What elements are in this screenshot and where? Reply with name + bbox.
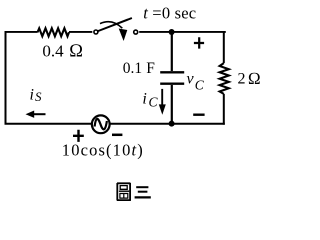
capacitor C1 bottom plate [160,82,184,84]
wire switch to top-right corner [139,31,226,33]
svg-text:C: C [195,77,205,92]
wire bottom-left [5,123,92,125]
svg-text:F: F [146,60,155,77]
svg-text:10cos(10t): 10cos(10t) [62,141,144,160]
current arrow iC down [161,89,163,106]
wire right vertical bottom segment [223,94,225,125]
minus sign source polarity [112,134,122,137]
node junction dot bottom [169,121,175,127]
node junction dot top [169,29,175,35]
wire resistor to switch [69,31,92,33]
plus sign source polarity [73,130,84,142]
switch blade [98,18,132,31]
svg-text:Ω: Ω [248,69,261,88]
svg-text:i: i [142,90,146,107]
wire capacitor bottom lead [171,85,173,124]
AC source VS circle [92,115,110,133]
wire capacitor top lead [171,32,173,71]
switch SW1 left contact [94,30,98,34]
caption character tu (figure) [117,183,131,200]
svg-text:C: C [149,94,159,109]
svg-text:Ω: Ω [69,42,83,62]
svg-text:v: v [187,70,195,87]
caption character san (three) [135,187,151,197]
switch SW1 right contact [134,30,138,34]
svg-text:i: i [30,86,34,103]
svg-text:0.1: 0.1 [123,60,142,77]
resistor R1 0.4 ohm zigzag [38,28,70,36]
wire bottom-right [110,123,225,125]
svg-text:0.4: 0.4 [42,41,64,60]
svg-text:t =0 sec: t =0 sec [143,4,196,23]
capacitor C1 top plate [160,71,184,73]
wire right vertical top segment [223,31,225,63]
switch motion arc [100,22,122,29]
svg-text:S: S [35,89,42,104]
wire top-left to resistor [5,31,38,33]
plus sign vC polarity [194,37,204,48]
minus sign vC polarity [193,113,204,115]
wire left vertical [5,32,7,124]
svg-text:2: 2 [238,71,246,88]
resistor R2 2 ohm vertical zigzag [220,63,229,94]
AC source sine wave [95,119,107,130]
current arrow iS left [33,113,46,115]
switch motion arrowhead [119,29,128,42]
